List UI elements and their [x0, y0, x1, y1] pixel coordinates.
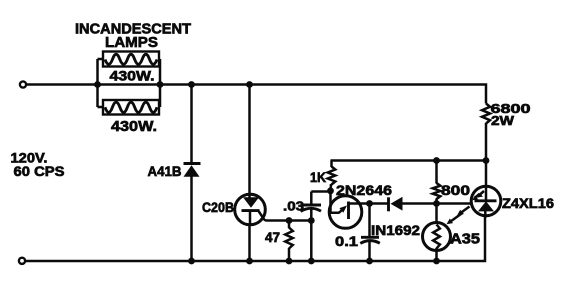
svg-text:2W: 2W — [491, 113, 515, 128]
svg-text:C20B: C20B — [202, 200, 234, 215]
svg-text:60 CPS: 60 CPS — [14, 164, 65, 179]
svg-text:2N2646: 2N2646 — [336, 182, 392, 198]
svg-text:0.1: 0.1 — [335, 234, 359, 249]
svg-text:47: 47 — [265, 230, 280, 245]
svg-text:LAMPS: LAMPS — [105, 34, 158, 51]
svg-text:1K: 1K — [310, 170, 326, 185]
svg-text:.03: .03 — [283, 199, 304, 214]
svg-text:Z4XL16: Z4XL16 — [502, 196, 555, 211]
svg-text:IN1692: IN1692 — [371, 223, 420, 238]
svg-text:A35: A35 — [450, 232, 480, 248]
svg-text:800: 800 — [441, 183, 470, 198]
svg-text:A41B: A41B — [148, 163, 182, 179]
svg-text:430W.: 430W. — [110, 68, 155, 84]
svg-text:430W.: 430W. — [111, 119, 157, 135]
